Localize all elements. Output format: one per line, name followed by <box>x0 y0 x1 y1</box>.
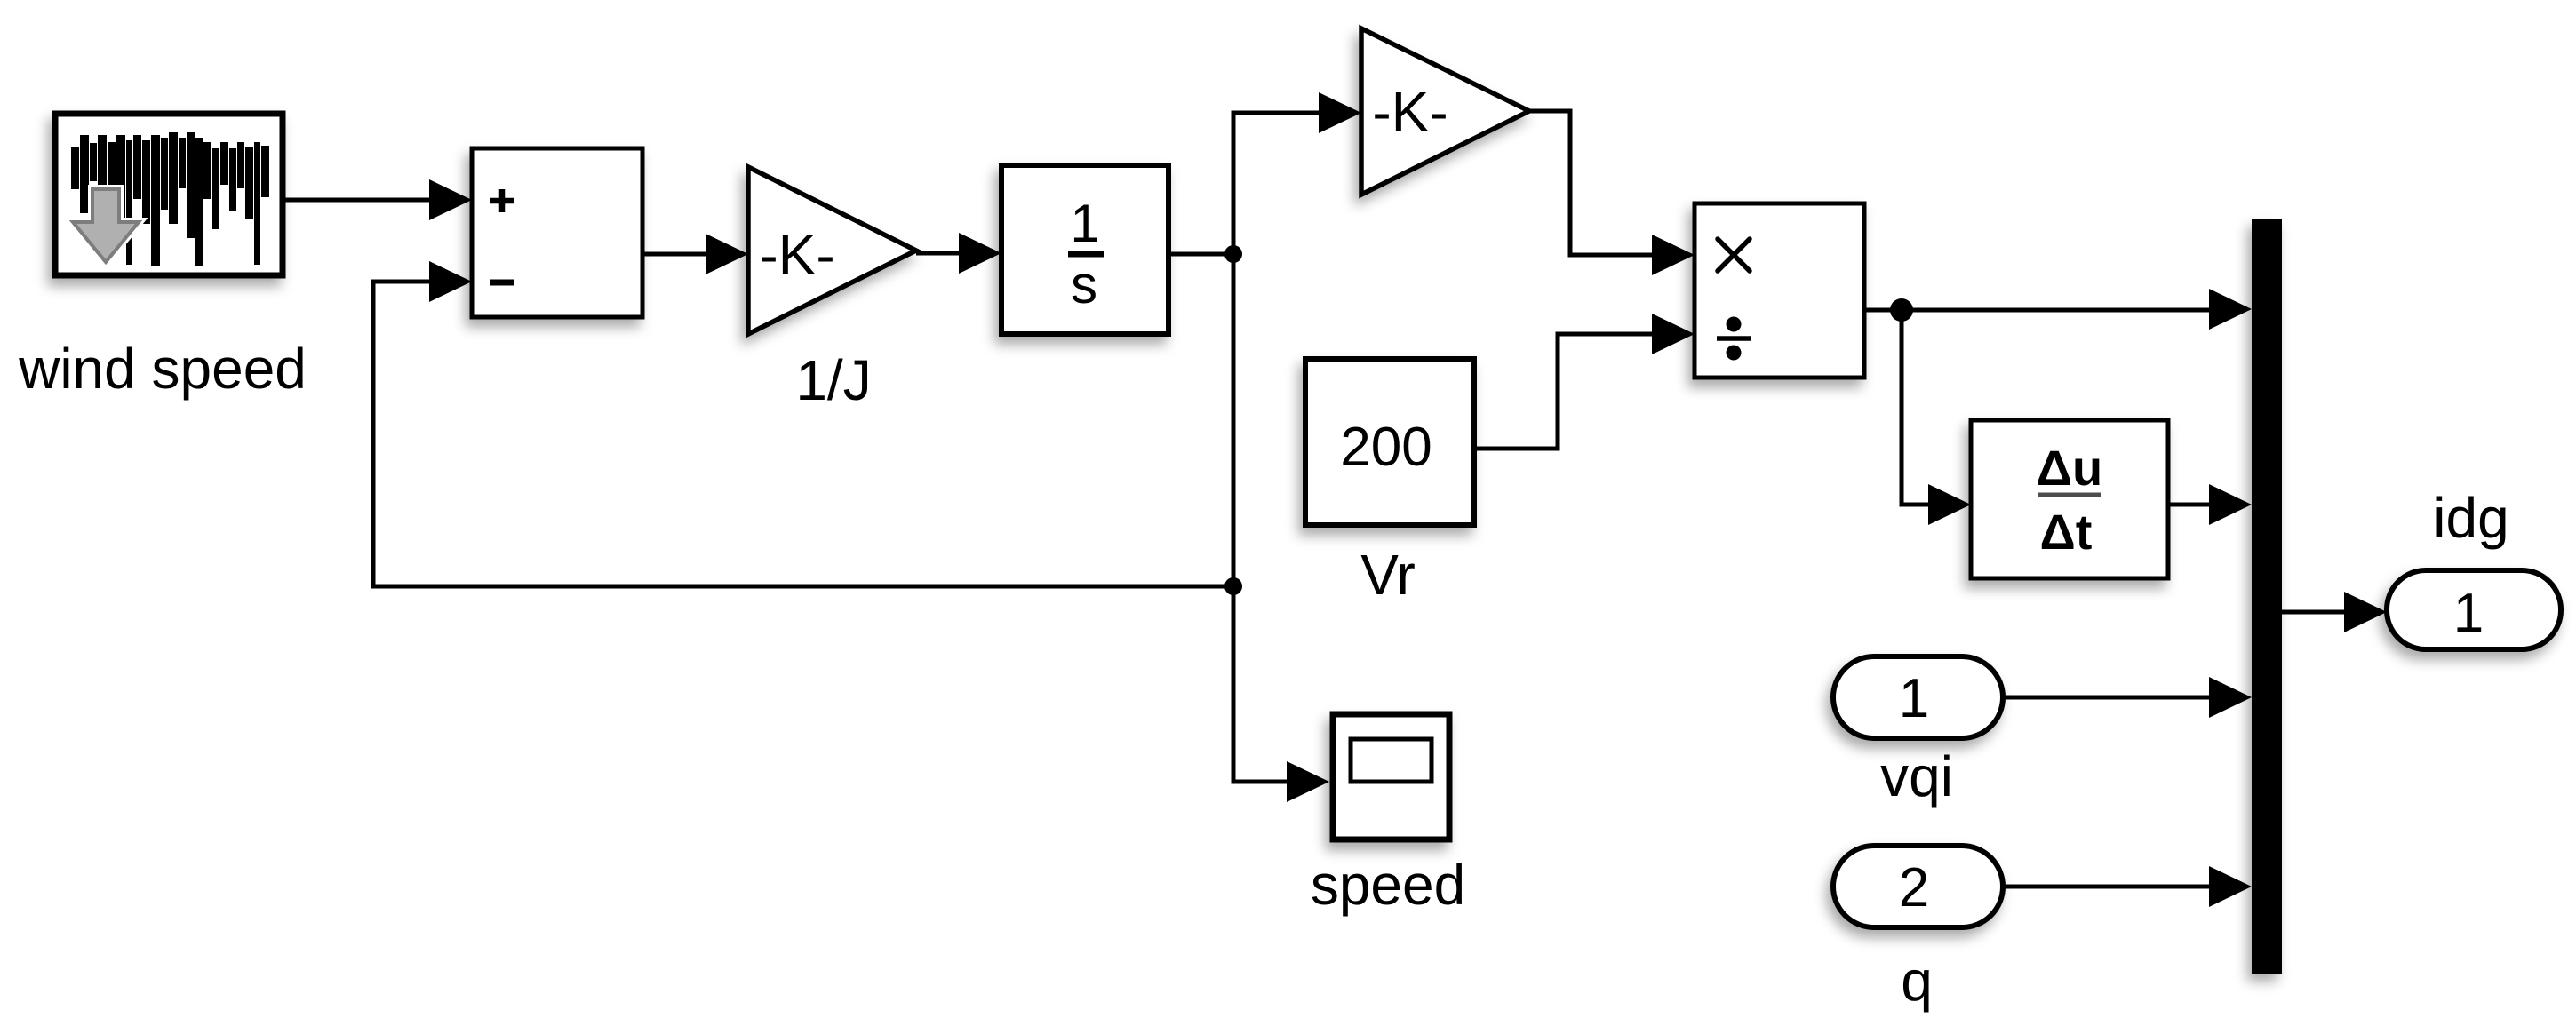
svg-text:Vr: Vr <box>1360 543 1416 607</box>
wire: wind speed to sum (+) <box>283 179 472 220</box>
inport vqi text 1 <box>1899 668 1929 729</box>
label: idg <box>2433 486 2508 550</box>
node: junction after integrator <box>1224 245 1242 263</box>
derivative text Δu/Δt <box>2037 440 2102 560</box>
inport q text 2 <box>1899 857 1929 919</box>
block: constant 200 <box>1305 359 1474 525</box>
svg-text:Δt: Δt <box>2040 504 2093 560</box>
wire: sum to gain 1/J <box>642 234 748 274</box>
block: gain 1/J (-K- triangle) <box>748 167 916 334</box>
svg-text:-K-: -K- <box>1372 80 1448 144</box>
svg-text:1: 1 <box>2453 583 2484 644</box>
sum plus sign <box>490 189 514 212</box>
node: junction at product output <box>1890 298 1913 322</box>
wire: junction down-left feedback and to scope <box>1233 254 1329 802</box>
block: outport 1 idg <box>2387 570 2561 649</box>
svg-text:idg: idg <box>2433 486 2508 550</box>
wire: product output to mux input 1 <box>1864 289 2252 330</box>
wire: q to mux input 4 <box>2003 866 2252 907</box>
product divide symbol <box>1717 317 1751 361</box>
wire: junction up to gain -K- (top) <box>1233 92 1361 254</box>
svg-text:Δu: Δu <box>2037 440 2102 496</box>
svg-text:1: 1 <box>1899 668 1929 729</box>
wire: derivative to mux input 2 <box>2168 484 2252 525</box>
svg-text:q: q <box>1901 949 1933 1013</box>
block: derivative du/dt <box>1971 420 2168 578</box>
wire: 200 to product (divide input) <box>1474 314 1695 449</box>
block: product (x / divide) <box>1695 203 1864 378</box>
block: sum (+/-) <box>472 148 642 317</box>
product times symbol <box>1718 239 1750 271</box>
svg-text:1/J: 1/J <box>795 348 871 412</box>
block: inport 1 vqi <box>1833 656 2003 738</box>
block: mux (black bar) <box>2252 219 2282 974</box>
svg-text:wind speed: wind speed <box>18 337 307 401</box>
label: vqi <box>1880 744 1953 808</box>
label: 1/J <box>795 348 871 412</box>
svg-text:1: 1 <box>1070 194 1099 253</box>
block: gain -K- (top) <box>1361 28 1529 195</box>
svg-text:s: s <box>1071 255 1097 314</box>
node: junction on feedback line <box>1224 577 1242 595</box>
wire: mux output to outport idg <box>2282 592 2387 632</box>
label: speed <box>1311 853 1465 917</box>
wire: gain top to product (x input) <box>1529 111 1695 275</box>
sum minus sign <box>490 280 514 286</box>
gain top text -K- <box>1372 80 1448 144</box>
wind speed gray download arrow <box>73 189 139 262</box>
label: q <box>1901 949 1933 1013</box>
svg-text:speed: speed <box>1311 853 1465 917</box>
wire: junction down to derivative block <box>1902 310 1971 525</box>
scope screen <box>1351 739 1432 782</box>
block: wind speed source (noise icon + gray arrow) <box>55 114 283 275</box>
integrator text 1 over s <box>1068 194 1104 314</box>
label: wind speed <box>18 337 307 401</box>
svg-text:-K-: -K- <box>759 223 834 287</box>
block: inport 2 q <box>1833 846 2003 927</box>
svg-text:2: 2 <box>1899 857 1929 919</box>
svg-text:vqi: vqi <box>1880 744 1953 808</box>
svg-text:200: 200 <box>1340 417 1432 478</box>
gain 1/J text -K- <box>759 223 834 287</box>
block: integrator 1/s <box>1001 165 1168 334</box>
constant text 200 <box>1340 417 1432 478</box>
wire: feedback line to sum (-) <box>373 261 1233 586</box>
wire: vqi to mux input 3 <box>2003 677 2252 718</box>
block: scope (speed) <box>1333 714 1449 839</box>
outport idg text 1 <box>2453 583 2484 644</box>
wire: gain 1/J to integrator <box>916 233 1001 274</box>
wire: integrator to junction <box>1168 252 1233 257</box>
wind speed noise signal bars <box>71 132 269 266</box>
label: Vr <box>1360 543 1416 607</box>
